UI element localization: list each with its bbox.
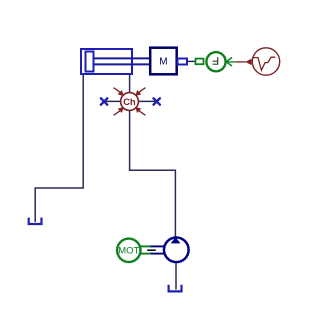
tank T1 bbox=[29, 218, 42, 224]
pump triangle bbox=[171, 237, 181, 243]
plugged port X left bbox=[101, 98, 107, 104]
link line bbox=[188, 60, 195, 62]
wire W1 cylinder left port to tank T1 bbox=[35, 74, 83, 222]
force input box bbox=[196, 59, 204, 65]
svg-text:MOT: MOT bbox=[118, 246, 139, 257]
signal source output triangle bbox=[245, 59, 251, 66]
piston rod bbox=[94, 57, 150, 59]
motor MOT bbox=[117, 239, 140, 262]
chamber port line right bbox=[139, 100, 157, 102]
piston bbox=[86, 52, 94, 72]
plugged port X right bbox=[154, 98, 160, 104]
shaft green half bbox=[139, 246, 150, 253]
wire W2 cylinder right port through chamber to pump bbox=[130, 74, 176, 238]
svg-text:Ch: Ch bbox=[123, 97, 136, 108]
mass block M bbox=[150, 48, 177, 75]
hydraulic cylinder body bbox=[81, 49, 132, 74]
shaft navy half bbox=[151, 246, 166, 253]
force source F bbox=[206, 52, 225, 71]
chamber arrow top-right bbox=[136, 88, 145, 95]
signal arrowhead at force source bbox=[226, 57, 232, 66]
tank T2 bbox=[169, 285, 182, 292]
pump P1 bbox=[164, 238, 189, 263]
chamber arrow top-left bbox=[114, 88, 123, 95]
chamber Ch circle bbox=[121, 93, 139, 111]
chamber arrow bottom-left bbox=[114, 108, 123, 115]
signal generator bbox=[252, 48, 279, 75]
svg-text:M: M bbox=[159, 57, 167, 68]
signal wire bbox=[226, 61, 236, 63]
chamber arrow bottom-right bbox=[136, 108, 145, 115]
wire W3 pump bottom to tank T2 bbox=[175, 262, 177, 290]
chamber port line left bbox=[104, 100, 121, 102]
waveform bbox=[253, 57, 275, 70]
clevis stub bbox=[178, 59, 188, 65]
shaft center mark bbox=[147, 249, 156, 251]
